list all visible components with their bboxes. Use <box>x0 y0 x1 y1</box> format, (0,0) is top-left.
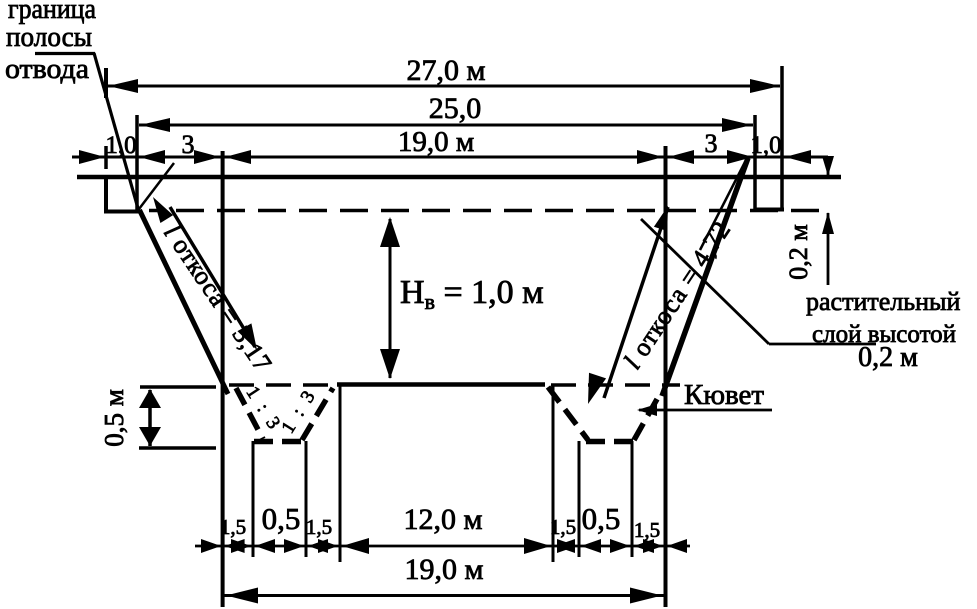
label 3 left <box>182 130 195 159</box>
left notch vertical <box>104 177 108 212</box>
svg-text:27,0 м: 27,0 м <box>407 54 486 87</box>
label 1,0 right <box>750 132 781 159</box>
arrow at x665 left side <box>637 150 663 164</box>
arrow 1,5L left <box>225 539 245 553</box>
kyuvet leader line <box>639 409 772 412</box>
arrow 19,0 left <box>226 588 258 604</box>
dashed platform over right ditch <box>551 383 680 387</box>
svg-text:1,0: 1,0 <box>105 132 136 159</box>
label l otkosa = 4,72 <box>618 215 737 374</box>
arrow row1 outside left <box>201 539 221 553</box>
label 27,0 m <box>407 54 486 87</box>
label sloy vysotoy <box>812 321 956 348</box>
svg-text:19,0 м: 19,0 м <box>405 553 484 586</box>
arrow left slope top <box>153 197 173 223</box>
extension tick x106 at dim row <box>104 146 108 169</box>
extension line x137 <box>135 115 139 212</box>
label 25,0 <box>429 92 482 125</box>
label 1,5 b <box>306 515 332 539</box>
svg-text:0,2 м: 0,2 м <box>784 224 813 279</box>
arrow 0,5m down <box>139 427 161 446</box>
arrow 0,5R left <box>581 539 601 553</box>
arrow 12,0 right <box>524 538 551 554</box>
label 1:3 right face <box>278 385 322 437</box>
left slope line <box>140 210 229 394</box>
svg-text:полосы: полосы <box>6 22 92 53</box>
leader rastitelny sloy <box>641 219 876 344</box>
label Kyuvet <box>684 379 764 411</box>
arrow 1,5R right <box>557 539 577 553</box>
svg-text:0,5 м: 0,5 м <box>99 389 129 447</box>
arrow 0,5m up <box>139 389 161 408</box>
svg-text:Нв = 1,0 м: Нв = 1,0 м <box>400 274 544 314</box>
0,5m dimension line <box>148 390 152 446</box>
arrow 25,0 right <box>722 118 752 132</box>
svg-text:1,5: 1,5 <box>220 515 246 539</box>
svg-text:3: 3 <box>705 129 718 158</box>
ground surface line <box>77 175 841 180</box>
arrow at x106 outside <box>79 150 105 164</box>
arrow 27,0 right <box>750 79 780 93</box>
arrow 12,0 left <box>342 538 369 554</box>
label rastitelny <box>806 287 960 316</box>
arrow row1 outside right <box>667 539 687 553</box>
label Hv = 1,0 m <box>400 274 544 314</box>
arrow 27,0 left <box>108 79 138 93</box>
extension line x306 <box>305 441 308 557</box>
right notch bottom <box>754 208 784 212</box>
ext line 0,5m top <box>140 385 216 389</box>
label l otkosa = 3,17 <box>158 219 278 377</box>
arrow Hv up <box>380 217 400 247</box>
arrow 1,5L2 right <box>318 539 338 553</box>
arrow right slope bottom <box>588 373 606 404</box>
svg-text:25,0: 25,0 <box>429 92 482 125</box>
arrow Hv down <box>380 349 400 379</box>
right slope line <box>662 158 748 396</box>
svg-text:отвода: отвода <box>5 54 90 85</box>
right-of-way boundary tick <box>104 68 108 98</box>
arrow 1,5R2 right <box>643 539 663 553</box>
left ditch bottom <box>254 439 306 445</box>
arrow 0,5L left <box>255 539 275 553</box>
arrow 25,0 left <box>140 118 170 132</box>
Hv vertical dimension line <box>389 219 392 378</box>
ext line 0,5m bottom <box>139 446 216 450</box>
arrow at x665 right side <box>668 150 694 164</box>
0,2m lower segment <box>827 213 830 285</box>
arrow at x755 left side <box>727 150 753 164</box>
svg-text:1 : 3: 1 : 3 <box>278 385 322 437</box>
extension line x782 <box>780 66 784 209</box>
arrow at x222 left side <box>194 150 220 164</box>
extension line x755 <box>753 115 757 209</box>
left slope dimension line <box>170 207 255 347</box>
label 1,5 d <box>634 518 660 542</box>
label 0,5 m rot <box>99 389 129 447</box>
label 0,2 m rot <box>784 224 813 279</box>
label 1,5 c <box>550 515 576 539</box>
extension line x665 <box>664 146 668 607</box>
label: granitsa polosy otvoda <box>5 0 97 85</box>
arrow 0,5R right <box>610 539 630 553</box>
label 19,0 m bottom <box>405 553 484 586</box>
arrow at x222 right side <box>225 150 251 164</box>
dashed line stripped topsoil <box>149 209 830 213</box>
svg-text:растительный: растительный <box>806 287 960 316</box>
arrow 1,5R2 left <box>634 539 654 553</box>
label 1,5 a <box>220 515 246 539</box>
svg-text:Кювет: Кювет <box>684 379 764 411</box>
arrow 1,5L2 left <box>308 539 328 553</box>
label 0,5 right <box>582 501 621 536</box>
extension line x579 <box>578 441 581 557</box>
label 19,0 m <box>398 126 474 158</box>
svg-text:3: 3 <box>182 130 195 159</box>
svg-text:1,5: 1,5 <box>306 515 332 539</box>
label 0,5 left <box>262 501 301 536</box>
svg-text:12,0 м: 12,0 м <box>404 503 483 536</box>
svg-text:0,5: 0,5 <box>582 501 621 536</box>
left ditch left face <box>236 388 263 439</box>
svg-text:19,0 м: 19,0 м <box>398 126 474 158</box>
extension line x222 <box>221 151 225 607</box>
right ditch left face <box>548 387 588 440</box>
svg-text:0,2 м: 0,2 м <box>858 342 918 373</box>
arrow 1,5L right <box>231 539 251 553</box>
label 0,2 m text <box>858 342 918 373</box>
extension line x340 <box>339 384 342 562</box>
arrow at x782 right side <box>785 150 811 164</box>
dimension row line <box>72 156 828 159</box>
left ditch right face <box>302 388 333 440</box>
right ditch bottom <box>586 439 633 445</box>
arrow 1,5R left <box>555 539 575 553</box>
arrow 0,5L right <box>284 539 304 553</box>
arrow right slope top <box>654 206 668 231</box>
svg-text:1,5: 1,5 <box>634 518 660 542</box>
arrow kyuvet <box>637 404 657 416</box>
dashed platform over left ditch <box>229 383 335 387</box>
extension line x632 <box>631 441 634 557</box>
right ditch right face <box>634 392 661 440</box>
label 3 right <box>705 129 718 158</box>
label 1,0 left <box>105 132 136 159</box>
arrow 0,2m down <box>822 156 834 176</box>
left notch bottom <box>104 210 140 214</box>
dimension line 27,0 m <box>108 85 780 88</box>
arrow at x137 right side <box>139 150 165 164</box>
bottom 19,0 dimension line <box>224 594 664 597</box>
0,2m upper segment <box>827 158 830 175</box>
arrow 19,0 right <box>630 588 662 604</box>
extension line x553 <box>552 384 555 562</box>
svg-text:0,5: 0,5 <box>262 501 301 536</box>
label 1:3 left face <box>242 383 286 435</box>
right slope dim extension <box>700 162 745 250</box>
roadbed platform line <box>337 382 545 387</box>
arrow left slope bottom <box>237 323 257 350</box>
svg-text:l откоса = 3,17: l откоса = 3,17 <box>158 219 278 377</box>
right slope dimension line <box>604 207 668 398</box>
dimension line 25,0 <box>139 124 753 127</box>
left slope dim extension <box>139 163 174 209</box>
arrow 0,2m up <box>822 212 834 234</box>
extension line x253 <box>252 441 255 557</box>
bottom dim row line <box>195 545 690 548</box>
label 12,0 m <box>404 503 483 536</box>
leader line from label polosy <box>35 53 139 212</box>
svg-text:1,5: 1,5 <box>550 515 576 539</box>
